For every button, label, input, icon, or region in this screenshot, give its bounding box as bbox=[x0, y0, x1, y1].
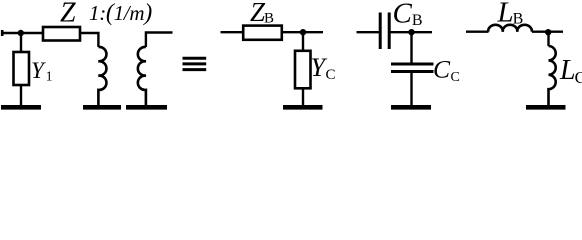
svg-text:YC: YC bbox=[311, 53, 336, 83]
impedance box Z bbox=[43, 27, 80, 41]
transformer secondary winding bbox=[138, 47, 146, 105]
svg-text:Y1: Y1 bbox=[31, 58, 53, 84]
capacitor CC plate 2 bbox=[391, 70, 434, 73]
wire ZB to output bbox=[282, 31, 323, 33]
wire input circuit 4 bbox=[466, 31, 489, 33]
ground bar 4 bbox=[283, 105, 323, 110]
ground bar 5 bbox=[391, 105, 431, 110]
node junction dot circuit 1 bbox=[18, 30, 24, 36]
ground bar 6 bbox=[526, 105, 566, 110]
wire CC to ground bbox=[410, 72, 412, 106]
svg-text:LB: LB bbox=[497, 0, 524, 29]
ground bar 2 (primary) bbox=[83, 105, 121, 110]
equivalence sign bbox=[183, 58, 207, 69]
port tick left end bbox=[1, 30, 4, 36]
inductor LC bbox=[549, 46, 556, 105]
inductor LB bbox=[488, 25, 532, 32]
transformer primary winding bbox=[98, 47, 106, 105]
ground bar 1 bbox=[1, 105, 41, 110]
wire YC to ground bbox=[302, 88, 304, 105]
wire CB to output bbox=[391, 31, 433, 33]
wire input port circuit 1 bbox=[1, 32, 42, 34]
node junction dot circuit 2 bbox=[300, 29, 306, 35]
admittance box YC bbox=[295, 51, 311, 89]
wire stub to Y1 bbox=[20, 33, 22, 51]
wire secondary top to output bbox=[146, 33, 173, 48]
svg-text:CB: CB bbox=[393, 0, 423, 30]
wire stub to YC bbox=[302, 32, 304, 50]
impedance box ZB bbox=[243, 26, 282, 40]
capacitor CB plate 2 bbox=[388, 13, 391, 50]
wire input circuit 3 bbox=[357, 31, 380, 33]
svg-text:ZB: ZB bbox=[250, 0, 274, 27]
wire Z to transformer primary bbox=[80, 33, 98, 47]
node junction dot circuit 4 bbox=[545, 29, 551, 35]
ground bar 3 (secondary) bbox=[126, 105, 167, 110]
wire stub to LC bbox=[547, 32, 549, 46]
wire input circuit 2 bbox=[221, 31, 244, 33]
resistor box Y1 bbox=[14, 52, 30, 85]
capacitor CC plate 1 bbox=[391, 63, 434, 66]
wire stub to CC bbox=[410, 32, 412, 64]
svg-text:CC: CC bbox=[433, 55, 460, 86]
svg-text:LC: LC bbox=[559, 55, 582, 87]
wire LB to output bbox=[532, 31, 563, 33]
capacitor CB plate 1 bbox=[379, 13, 382, 50]
wire Y1 to ground bbox=[20, 85, 22, 105]
svg-text:Z: Z bbox=[60, 0, 76, 29]
node junction dot circuit 3 bbox=[408, 29, 414, 35]
svg-text:1:(1/m): 1:(1/m) bbox=[89, 0, 152, 26]
